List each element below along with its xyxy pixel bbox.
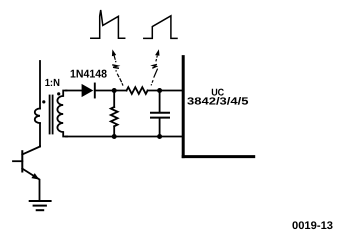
transistor Q1 emitter arrowhead bbox=[31, 173, 39, 180]
waveform right (clean ramp) bbox=[144, 16, 177, 39]
svg-text:1N4148: 1N4148 bbox=[70, 68, 107, 80]
wire secondary to diode anode bbox=[66, 90, 82, 92]
wire primary top lead bbox=[39, 61, 41, 109]
transformer T1 secondary winding bbox=[57, 91, 67, 137]
transformer core bbox=[49, 96, 51, 134]
diode D1 1N4148 bbox=[82, 84, 94, 97]
junction dot bottom rail at R2 bbox=[112, 134, 117, 139]
svg-text:0019-13: 0019-13 bbox=[292, 220, 333, 232]
waveform left (spiked ramp) bbox=[91, 10, 125, 38]
IC U1 UC3842 block outline bbox=[182, 55, 185, 158]
transistor Q1 base lead bbox=[13, 160, 22, 162]
wire resistor R1 to IC bbox=[148, 90, 182, 92]
transistor Q1 base bar bbox=[21, 151, 23, 171]
transformer T1 primary winding bbox=[35, 109, 40, 124]
wire diode to resistor R1 bbox=[95, 90, 127, 92]
junction dot bottom rail at C1 bbox=[157, 134, 162, 139]
ground bbox=[30, 200, 51, 202]
capacitor C1 bbox=[151, 112, 169, 114]
node A junction dot bbox=[112, 88, 117, 93]
wire R2 to bottom rail bbox=[113, 126, 115, 136]
svg-text:1:N: 1:N bbox=[45, 78, 60, 89]
dashed arrow right bbox=[151, 49, 159, 85]
transistor Q1 collector bbox=[22, 146, 40, 154]
node B junction dot bbox=[157, 88, 162, 93]
transformer primary polarity dot bbox=[42, 100, 45, 103]
resistor R2 vertical bbox=[111, 107, 118, 126]
wire node B down to capacitor C1 bbox=[159, 91, 161, 113]
wire capacitor C1 to bottom rail bbox=[159, 118, 161, 137]
resistor R1 horizontal bbox=[127, 87, 148, 94]
dashed arrow left bbox=[112, 49, 123, 85]
wire bottom rail bbox=[66, 136, 182, 138]
transformer secondary polarity dot bbox=[57, 92, 60, 95]
wire node A down to R2 bbox=[113, 91, 115, 108]
transistor Q1 emitter bbox=[22, 169, 39, 201]
wire primary bottom lead bbox=[39, 123, 41, 146]
svg-text:3842/3/4/5: 3842/3/4/5 bbox=[187, 96, 249, 107]
